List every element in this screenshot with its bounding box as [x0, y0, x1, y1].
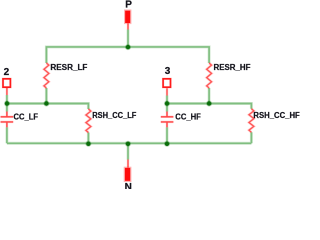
svg-text:CC_HF: CC_HF — [175, 112, 201, 121]
svg-text:N: N — [125, 182, 132, 189]
svg-text:P: P — [125, 0, 132, 11]
svg-text:RSH_CC_LF: RSH_CC_LF — [92, 111, 136, 120]
svg-text:CC_LF: CC_LF — [14, 112, 39, 121]
svg-text:RESR_LF: RESR_LF — [50, 63, 87, 72]
svg-text:3: 3 — [165, 66, 171, 77]
svg-text:RESR_HF: RESR_HF — [214, 63, 251, 72]
svg-text:RSH_CC_HF: RSH_CC_HF — [253, 111, 300, 120]
svg-text:2: 2 — [4, 67, 10, 78]
